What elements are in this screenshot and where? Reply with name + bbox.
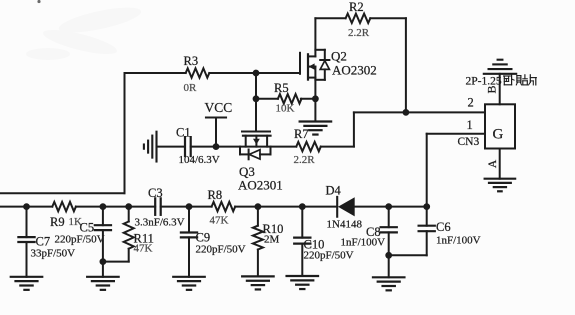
svg-text:0R: 0R [184,82,198,94]
pin label 1 [467,118,473,132]
wire gate node down to R5/Q3 [255,73,257,132]
transistor Q2 source stub [308,77,315,79]
ground under C5 [87,277,119,290]
resistor R9 body [52,202,76,211]
label 220pF/50V (C5) [55,234,105,246]
svg-text:10K: 10K [276,103,295,115]
wire pin1 [427,134,485,207]
wire pin A [499,149,501,179]
svg-text:1nF/100V: 1nF/100V [341,237,386,249]
node C9 junction [186,204,192,210]
svg-text:220pF/50V: 220pF/50V [304,250,354,262]
label D4 [326,184,342,198]
ground under C8 [373,277,405,290]
node R10 junction [255,204,261,210]
svg-text:D4: D4 [326,184,342,198]
transistor Q2 arrow [309,63,315,69]
capacitor C5 [95,207,111,262]
svg-text:47K: 47K [210,215,229,227]
transistor Q3 right stub [266,136,268,147]
label Q2 [331,49,347,64]
svg-text:AO2302: AO2302 [332,63,377,78]
label R7 [294,127,309,141]
faint watermark smudge [26,2,143,60]
Q2 body diode branch [315,50,329,80]
svg-text:R5: R5 [274,81,289,95]
svg-text:R3: R3 [184,54,199,68]
wire rail left [0,206,52,208]
node R11 junction [126,204,132,210]
svg-text:R9: R9 [50,215,65,229]
ground (rotated) left of C1 [144,132,157,162]
svg-text:CN3: CN3 [458,136,480,148]
transistor Q3 arrow [253,139,260,145]
svg-text:B: B [484,85,498,93]
label AO2301 [238,178,283,193]
label 0R [184,82,198,94]
svg-text:G: G [493,127,504,143]
wire pin B [499,74,501,105]
capacitor C10 [294,207,310,276]
wire Q2 drain up to R2 [314,18,316,56]
svg-text:VCC: VCC [205,100,233,115]
svg-text:104/6.3V: 104/6.3V [179,154,220,166]
resistor R7 body [296,142,321,151]
node C10 junction [299,204,305,210]
resistor R11 [103,207,134,262]
label 104/6.3V [179,154,220,166]
label 1nF/100V (C6) [436,235,481,247]
label R5 [274,81,289,95]
svg-text:C1: C1 [176,126,191,140]
svg-text:220pF/50V: 220pF/50V [196,244,246,256]
svg-text:C6: C6 [436,220,451,234]
label R2 [349,0,364,14]
wire left input to R3 [1,73,186,193]
node C6/pin1 junction [424,204,430,210]
capacitor C7 [18,207,34,277]
resistor R2 leads [315,17,406,19]
label R10 [263,222,284,236]
wire Q2 source down [314,67,316,99]
label 10K [276,103,295,115]
label R11 [134,232,154,246]
svg-text:3.3nF/6.3V: 3.3nF/6.3V [135,217,185,229]
transistor Q2 drain stub [308,55,315,57]
label C7 [36,235,51,249]
label 2M [264,234,280,246]
node C7 junction [24,204,30,210]
node pin2 junction [403,110,409,116]
wire R3 to Q2 gate [209,72,300,74]
wire rail C3-R8 [161,206,212,208]
label C1 [176,126,191,140]
resistor R2 body [346,14,371,23]
label 2.2R (R2) [348,27,370,39]
svg-text:47K: 47K [134,243,153,255]
label G [493,127,504,143]
svg-text:A: A [487,159,499,168]
wire R7 to pin2 [321,112,485,146]
label R9 [50,215,65,229]
transistor Q2 body stub [308,66,315,68]
svg-text:1N4148: 1N4148 [327,219,363,231]
svg-text:220pF/50V: 220pF/50V [55,234,105,246]
label R8 [208,188,223,202]
svg-text:C5: C5 [80,221,95,235]
label 220pF/50V (C9) [196,244,246,256]
wire rail R9-C3 [76,206,155,208]
label VCC [205,100,233,115]
resistor R10 [253,207,263,277]
pin label 2 [468,96,474,110]
svg-text:2: 2 [468,96,474,110]
Q3 body diode loop [240,147,271,160]
label Q3 [239,164,255,179]
node R5 left junction [253,96,259,102]
svg-text:2.2R: 2.2R [294,154,316,166]
svg-text:C9: C9 [196,231,211,245]
wire R2 right down [405,18,407,112]
label 33pF/50V [31,248,76,260]
svg-text:1: 1 [467,118,473,132]
label C9 [196,231,211,245]
label 1N4148 [327,219,363,231]
label C8 [366,225,381,239]
label 2P-1.25 [466,76,502,88]
svg-text:C3: C3 [148,186,163,200]
label 220pF/50V (C10) [304,250,354,262]
ground under C9 [173,277,205,290]
transistor Q3 middle stub [255,136,257,147]
label C6 [436,220,451,234]
label C10 [304,238,325,252]
power VCC symbol [206,118,226,147]
label R3 [184,54,199,68]
label CN3 [458,136,480,148]
resistor R5 body [278,94,302,103]
svg-text:33pF/50V: 33pF/50V [31,248,76,260]
wire rail D4-pin1 [355,206,427,208]
label C3 [148,186,163,200]
svg-text:2M: 2M [264,234,280,246]
svg-text:2.2R: 2.2R [348,27,370,39]
capacitor C1 [185,137,191,156]
node C8 bottom junction [386,252,392,258]
capacitor C6 [389,207,435,256]
label 1nF/100V (C8) [341,237,386,249]
connector CN3 box [485,104,515,148]
node VCC junction [213,144,219,150]
capacitor C9 [181,207,197,277]
transistor Q3 left stub [245,136,247,147]
svg-text:R7: R7 [294,127,309,141]
resistor R5 leads [256,98,315,100]
ground under R10 [242,276,274,289]
label 3.3nF/6.3V [135,217,185,229]
label 47K (R11) [134,243,153,255]
ground under C10 [287,276,319,289]
wire C5 bottom to ground [102,262,104,277]
node C5 junction [100,204,106,210]
label 2.2R (R7) [294,154,316,166]
svg-text:1nF/100V: 1nF/100V [436,235,481,247]
label C5 [80,221,95,235]
pin label B [484,85,498,93]
wire C8 bottom to ground [388,255,390,277]
node C5-R11 bottom junction [100,259,106,265]
wire rail R8-D4 [235,206,337,208]
speck artifact [37,0,40,3]
ground below connector [485,179,516,192]
transistor Q3 channel bar [243,135,271,137]
transistor Q3 gate bar [242,131,270,133]
svg-text:R2: R2 [349,0,364,14]
ground under Q2 source [300,99,332,135]
pin label A [487,159,499,168]
capacitor C3 [155,198,161,215]
label 47K (R8) [210,215,229,227]
node Q2 source junction [313,96,319,102]
resistor R8 body [212,202,236,211]
svg-text:Q2: Q2 [331,49,347,64]
wire C1 to Q3 to R7 [191,146,297,148]
label 1K [69,216,83,228]
diode D4 [337,197,355,217]
ground under C7 [11,277,43,290]
transistor Q2 channel bar [307,54,309,79]
ground (inverted) above connector [484,60,516,74]
label 卧贴片 (SMD lying type) [504,75,537,85]
svg-text:R8: R8 [208,188,223,202]
label AO2302 [332,63,377,78]
svg-text:AO2301: AO2301 [238,178,283,193]
wire gnd to C1 [157,146,186,148]
capacitor C8 [381,207,397,256]
node C8 junction [386,204,392,210]
resistor R1 (R3 body) [186,68,210,77]
svg-text:C7: C7 [36,235,51,249]
transistor Q2 gate bar [299,53,301,74]
node R3-R5 junction [253,70,259,76]
